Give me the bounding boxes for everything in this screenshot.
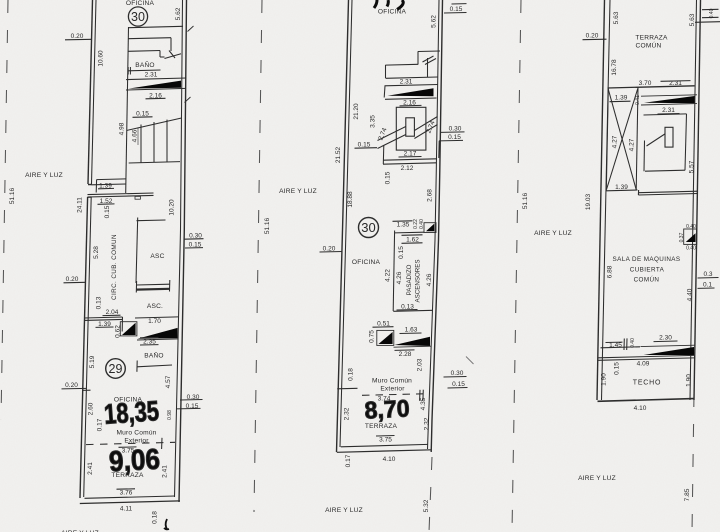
terraza south wall outer [80, 501, 180, 504]
svg-text:CIRC. CUB. COMUN: CIRC. CUB. COMUN [111, 234, 118, 300]
property line right [512, 0, 521, 532]
svg-text:24.11: 24.11 [77, 197, 84, 213]
svg-text:SALA DE MAQUINAS: SALA DE MAQUINAS [613, 256, 681, 263]
property line left [1, 0, 8, 420]
dim 2.30 [654, 335, 678, 342]
stair box bottom mid [383, 145, 437, 164]
handwritten mark bottom [164, 519, 169, 530]
dim 2.16 mid [400, 100, 422, 107]
mid unit east wall inner [428, 0, 440, 449]
hall wall end post [121, 317, 123, 332]
door box mid [377, 330, 394, 345]
svg-text:AIRE Y LUZ: AIRE Y LUZ [279, 188, 317, 195]
terraza comun label [635, 35, 668, 50]
svg-text:3.76: 3.76 [120, 490, 133, 497]
partition west of bath [126, 27, 129, 193]
svg-text:1.63: 1.63 [405, 327, 418, 334]
svg-text:4.27: 4.27 [611, 135, 618, 148]
right unit east wall outer [694, 0, 701, 400]
svg-text:0.40: 0.40 [686, 224, 696, 230]
sala north wall [638, 190, 698, 195]
left unit east wall outer [179, 0, 187, 502]
svg-text:1.39: 1.39 [615, 95, 628, 102]
svg-text:2.32: 2.32 [423, 417, 430, 430]
svg-text:ASC.: ASC. [147, 303, 163, 310]
wall stub [128, 67, 130, 75]
svg-text:6.88: 6.88 [606, 265, 613, 278]
dim 4.66 [132, 128, 139, 145]
svg-text:1.90: 1.90 [600, 373, 607, 386]
svg-text:TERRAZA: TERRAZA [365, 423, 398, 430]
svg-text:2.28: 2.28 [399, 351, 412, 358]
dim 2.28 [395, 350, 415, 358]
svg-text:4.10: 4.10 [634, 405, 647, 412]
dim 0.51 [373, 321, 394, 328]
svg-text:4.35: 4.35 [420, 397, 427, 410]
svg-text:4.27: 4.27 [628, 138, 635, 151]
terraza comun south wall [608, 86, 695, 88]
svg-text:18.88: 18.88 [347, 191, 354, 208]
svg-text:0.20: 0.20 [66, 276, 79, 283]
svg-text:2.03: 2.03 [416, 358, 423, 371]
dim 0.30 lower mid east [444, 370, 467, 377]
stair box top mid [384, 85, 437, 98]
dim 1.39 right top [610, 95, 631, 102]
svg-text:ASCENSORES: ASCENSORES [415, 260, 422, 303]
svg-text:BAÑO: BAÑO [144, 351, 164, 360]
wall tick office [83, 389, 91, 391]
svg-text:5.28: 5.28 [93, 246, 100, 259]
svg-text:0.15: 0.15 [613, 362, 620, 375]
bath south wall [137, 361, 172, 372]
svg-text:0.20: 0.20 [71, 33, 84, 40]
svg-text:0.37: 0.37 [679, 232, 685, 242]
svg-text:10.20: 10.20 [168, 199, 175, 216]
svg-text:Muro Común: Muro Común [372, 378, 412, 385]
dim 0.20 right unit [583, 33, 607, 40]
door wedge black [122, 323, 136, 335]
machine inner rect [665, 127, 673, 147]
mid unit west wall outer [337, 0, 349, 452]
svg-text:0.22: 0.22 [413, 219, 419, 229]
svg-text:COMÚN: COMÚN [634, 275, 660, 284]
svg-text:BAÑO: BAÑO [135, 60, 155, 69]
muro comun label left [116, 430, 156, 445]
door wedge black mid [379, 332, 393, 344]
svg-text:Muro Común: Muro Común [116, 430, 156, 437]
svg-text:ASC: ASC [150, 253, 164, 260]
sala de maquinas label [613, 256, 681, 284]
svg-text:0.40: 0.40 [630, 338, 636, 348]
svg-text:21.52: 21.52 [335, 146, 342, 163]
wall over dim 2.31 [128, 69, 161, 72]
svg-text:PASADIZO: PASADIZO [406, 264, 413, 295]
svg-text:1.70: 1.70 [148, 318, 161, 325]
dim 1.35 [393, 221, 413, 229]
entry wedge black mid [394, 337, 432, 348]
svg-text:3.70: 3.70 [639, 80, 652, 87]
dim 1.70 [135, 317, 178, 325]
unit circle 29 [106, 359, 126, 379]
landing step upper [386, 51, 441, 78]
svg-text:29: 29 [109, 362, 123, 376]
dim 1.52 [98, 198, 115, 205]
right unit east wall inner [690, 0, 697, 400]
stair core box mid [396, 107, 426, 150]
svg-text:4.22: 4.22 [385, 269, 392, 282]
dim 0.20 top left [65, 33, 92, 40]
svg-text:0.15: 0.15 [450, 6, 463, 13]
svg-text:1.39: 1.39 [615, 184, 628, 191]
svg-text:8,70: 8,70 [364, 395, 410, 424]
dim 0.20 lower left [62, 382, 87, 389]
svg-text:TECHO: TECHO [633, 380, 662, 387]
svg-text:0.30: 0.30 [449, 126, 462, 133]
svg-text:0.62: 0.62 [114, 325, 121, 338]
svg-text:1.90: 1.90 [685, 374, 692, 387]
dim 1.39 upper [96, 179, 125, 193]
wall under oficina label [129, 26, 184, 27]
stairwell x-box [606, 87, 638, 191]
right unit west wall inner [602, 0, 611, 400]
unit circle 30 mid [359, 218, 379, 238]
right unit west wall outer [597, 0, 605, 400]
svg-text:2.41: 2.41 [162, 465, 169, 478]
dim 3.76 [117, 489, 136, 497]
property line mid [254, 0, 262, 512]
svg-text:21.20: 21.20 [353, 103, 360, 120]
svg-text:5.62: 5.62 [431, 15, 438, 28]
roof wedge black [641, 345, 696, 355]
svg-text:0.3: 0.3 [703, 271, 712, 278]
slab edge over vent wedge [126, 78, 186, 80]
svg-text:4.11: 4.11 [120, 506, 133, 513]
svg-text:5.19: 5.19 [89, 355, 96, 368]
stair flight diagonals mid [378, 117, 438, 149]
dim 2.31 right top [661, 80, 691, 87]
svg-text:TERRAZA: TERRAZA [111, 472, 144, 479]
dim 2.35 [140, 337, 159, 345]
svg-text:2.31: 2.31 [662, 107, 675, 114]
door leaf box [120, 322, 137, 336]
dim 3.75 mid [376, 436, 395, 444]
dim 1.45 [606, 342, 623, 349]
landing edge mid [386, 58, 438, 78]
slab edge under vent wedge [126, 88, 186, 90]
svg-text:18,35: 18,35 [103, 395, 160, 430]
svg-text:0.15: 0.15 [452, 381, 465, 388]
door wedge small mid [424, 223, 436, 233]
svg-text:Exterior: Exterior [380, 386, 405, 393]
dim 0.20 mid left [64, 276, 87, 283]
dim 0.15 top right mid [444, 4, 467, 13]
dim 0.3 east [698, 271, 719, 278]
circulation wall [87, 193, 153, 197]
pasadizo south wall [393, 310, 433, 311]
dim 2.31 right mid [658, 107, 680, 114]
step break diagonals [423, 56, 437, 65]
dim 0.30 mid east [441, 126, 465, 133]
svg-text:0.15: 0.15 [384, 171, 391, 184]
bath counter step 1 [128, 38, 171, 51]
svg-text:0.17: 0.17 [345, 454, 352, 467]
terraza south wall inner [85, 496, 176, 498]
svg-text:AIRE Y LUZ: AIRE Y LUZ [325, 507, 363, 514]
left unit east wall inner [175, 0, 183, 497]
vent wedge black right [641, 95, 697, 105]
wall notch [135, 196, 140, 199]
svg-text:4.26: 4.26 [396, 271, 403, 284]
svg-text:0.20: 0.20 [65, 382, 78, 389]
hall south wall [84, 317, 122, 320]
left unit west wall outer [80, 0, 93, 498]
svg-text:51.16: 51.16 [264, 217, 271, 234]
svg-text:10.60: 10.60 [98, 50, 105, 67]
svg-text:0.15: 0.15 [448, 134, 461, 141]
edge under wedge mid [385, 98, 437, 99]
svg-text:COMÚN: COMÚN [636, 41, 662, 50]
dim 0.30 left unit east [180, 394, 203, 401]
dim 0.20 mid west [320, 246, 343, 253]
dim 0.15 left unit [133, 111, 153, 118]
svg-text:2.31: 2.31 [145, 72, 158, 79]
dim 0.15 west mid [355, 142, 378, 149]
svg-text:3.75: 3.75 [379, 437, 392, 444]
dim 2.12 [401, 165, 414, 172]
techo south wall [598, 399, 694, 402]
dim 0.15 mid east [439, 134, 463, 158]
svg-text:51.16: 51.16 [9, 187, 16, 204]
stair tread 1 [140, 125, 142, 163]
wall break diagonal [165, 51, 182, 59]
muro comun label mid [372, 378, 412, 393]
svg-text:2.31: 2.31 [400, 79, 413, 86]
svg-text:2.12: 2.12 [401, 165, 414, 172]
svg-text:30: 30 [361, 220, 375, 235]
unit circle 30 [128, 7, 147, 26]
svg-text:2.68: 2.68 [426, 189, 433, 202]
svg-text:4.66: 4.66 [132, 129, 139, 142]
svg-text:0.18: 0.18 [348, 368, 355, 381]
handwritten partial number top [374, 0, 403, 10]
dim 0.1 east [698, 282, 715, 289]
svg-text:0.15: 0.15 [398, 246, 405, 259]
dim ticks east wall [185, 26, 194, 103]
vent wedge black mid [388, 88, 434, 96]
svg-text:2.32: 2.32 [343, 407, 350, 420]
svg-text:0.98: 0.98 [167, 410, 173, 420]
svg-text:0.20: 0.20 [586, 33, 599, 40]
svg-text:AIRE Y LUZ: AIRE Y LUZ [25, 172, 63, 179]
landing edge [92, 183, 126, 186]
asc shaft top [136, 218, 166, 284]
stair core landing rect [406, 118, 415, 136]
dim 0.15 lower mid east [448, 381, 468, 388]
machine diagonal [647, 134, 665, 146]
dim 0.15 left unit east [176, 403, 201, 410]
svg-text:2.30: 2.30 [659, 335, 672, 342]
svg-text:5.32: 5.32 [423, 499, 430, 512]
svg-text:4.09: 4.09 [637, 361, 650, 368]
bath counter step 2 [128, 51, 164, 58]
stair tread 2 [153, 122, 155, 162]
stair bottom edge [129, 162, 180, 163]
muro comun dashed line left [86, 438, 175, 449]
svg-text:19.03: 19.03 [585, 193, 592, 210]
svg-text:4.98: 4.98 [119, 122, 126, 135]
svg-text:OFICINA: OFICINA [378, 9, 407, 16]
svg-text:0.18: 0.18 [152, 511, 159, 524]
svg-text:30: 30 [131, 10, 145, 24]
machine room box [644, 114, 687, 171]
svg-text:3.35: 3.35 [370, 115, 377, 128]
svg-text:OFICINA: OFICINA [352, 259, 381, 266]
svg-text:OFICINA: OFICINA [126, 0, 155, 7]
terraza mid south wall inner [341, 444, 428, 446]
dim 2.17 [399, 151, 422, 158]
svg-text:5.62: 5.62 [175, 7, 182, 20]
svg-text:4.57: 4.57 [165, 375, 172, 388]
svg-text:7.85: 7.85 [684, 488, 691, 501]
dim 0.30 upper east [184, 233, 204, 240]
west wall end tick mid [337, 387, 357, 390]
dim 0.13 mid [397, 304, 418, 311]
stair tread 3 [166, 120, 168, 162]
sala south wall [601, 338, 641, 350]
property line below mid terraza [429, 457, 432, 532]
svg-text:2.41: 2.41 [87, 462, 94, 475]
svg-text:4.10: 4.10 [383, 456, 396, 463]
property line below techo [692, 394, 694, 532]
terraza mid south wall outer [337, 450, 432, 453]
svg-text:0.15: 0.15 [104, 205, 111, 218]
pasadizo west wall [393, 231, 424, 312]
stray scratch mark [466, 357, 474, 365]
mid unit east wall outer [431, 0, 442, 452]
muro comun dashed line mid [362, 390, 424, 401]
svg-text:0.17: 0.17 [97, 418, 104, 431]
svg-text:1.35: 1.35 [397, 222, 410, 229]
svg-text:51.16: 51.16 [522, 192, 529, 209]
dim 2.16 left unit [146, 93, 166, 100]
svg-text:AIRE Y LUZ: AIRE Y LUZ [534, 230, 572, 237]
dim 3.75 left unit [119, 447, 137, 455]
svg-text:0.30: 0.30 [451, 370, 464, 377]
dim 0.15 upper east [185, 242, 203, 249]
svg-text:0.40: 0.40 [686, 246, 696, 252]
stair run diagonal [127, 118, 182, 131]
corner dims top right [695, 8, 720, 22]
svg-text:5.63: 5.63 [613, 11, 620, 24]
left unit west wall inner [84, 0, 96, 497]
svg-text:0.40: 0.40 [709, 8, 715, 18]
techo north wall [598, 355, 694, 360]
svg-text:0.13: 0.13 [96, 296, 103, 309]
duct box right [684, 229, 697, 244]
dim 1.62 [402, 235, 423, 244]
svg-text:4.40: 4.40 [686, 288, 693, 301]
svg-text:5.63: 5.63 [689, 13, 696, 26]
svg-text:2.60: 2.60 [88, 402, 95, 415]
svg-text:16.78: 16.78 [611, 59, 618, 76]
svg-text:TERRAZA: TERRAZA [635, 35, 668, 42]
elevator car symbol [136, 280, 170, 293]
svg-text:AIRE Y LUZ: AIRE Y LUZ [578, 475, 616, 482]
svg-text:0.75: 0.75 [368, 330, 375, 343]
svg-text:CUBIERTA: CUBIERTA [630, 267, 665, 274]
mid unit west wall inner [340, 0, 352, 447]
dim 1.63 [400, 327, 422, 334]
dim 1.39 lower [96, 321, 114, 328]
vent shaft wedge black [129, 81, 182, 89]
entry wedge black [137, 328, 179, 340]
svg-text:5.57: 5.57 [688, 160, 695, 173]
svg-text:0.1: 0.1 [703, 282, 712, 289]
svg-text:4.26: 4.26 [426, 273, 433, 286]
dim 2.04 [103, 309, 121, 316]
